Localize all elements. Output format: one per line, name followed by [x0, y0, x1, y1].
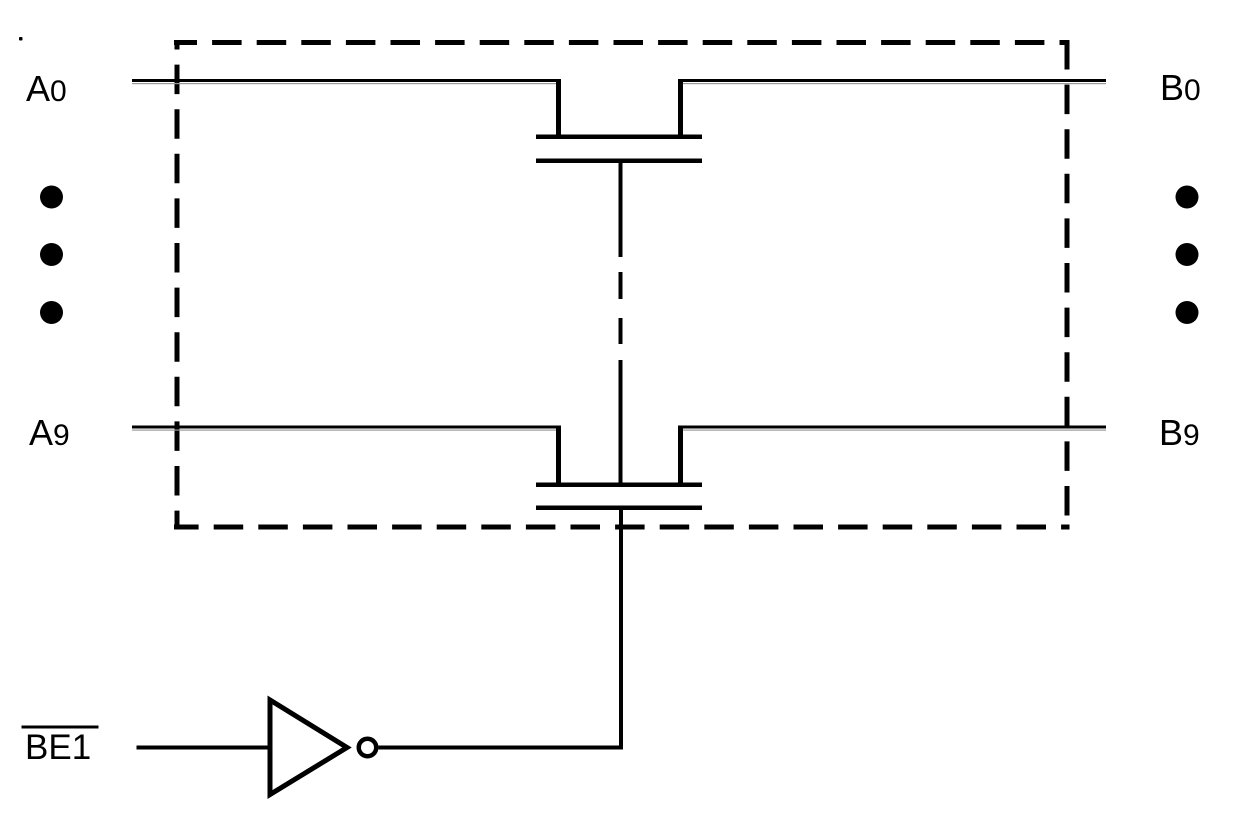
svg-text:BE1: BE1 — [25, 728, 91, 767]
svg-text:A9: A9 — [29, 412, 70, 453]
svg-text:A0: A0 — [26, 68, 67, 109]
svg-text:B9: B9 — [1159, 412, 1200, 453]
svg-text:B0: B0 — [1160, 67, 1201, 108]
